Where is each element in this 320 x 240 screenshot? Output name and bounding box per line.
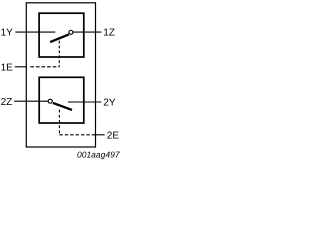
control line 2E dashed vertical	[58, 110, 60, 135]
outer box	[26, 3, 95, 147]
svg-text:2E: 2E	[107, 131, 120, 142]
wire 1Z	[73, 31, 101, 33]
switch box SW2	[39, 77, 84, 123]
switch S1 blade	[50, 34, 69, 42]
switch box SW1	[39, 13, 84, 57]
wire 1Y	[15, 31, 55, 33]
svg-text:2Z: 2Z	[1, 97, 13, 108]
switch S2 contact circle	[48, 99, 52, 103]
svg-text:1Y: 1Y	[1, 28, 14, 39]
svg-text:1E: 1E	[1, 63, 14, 74]
switch S2 blade	[53, 103, 72, 110]
wire 2E lead	[96, 134, 105, 136]
svg-text:001aag497: 001aag497	[77, 149, 120, 159]
wire 2Z	[14, 100, 48, 102]
switch S1 contact circle	[69, 30, 73, 34]
wire 1E lead	[15, 66, 27, 68]
svg-text:2Y: 2Y	[103, 98, 116, 109]
svg-text:1Z: 1Z	[103, 28, 115, 39]
control line 2E dashed horizontal	[59, 134, 95, 136]
control line 1E dashed vertical	[58, 41, 60, 67]
wire 2Y	[68, 101, 102, 103]
control line 1E dashed horizontal	[30, 66, 59, 68]
